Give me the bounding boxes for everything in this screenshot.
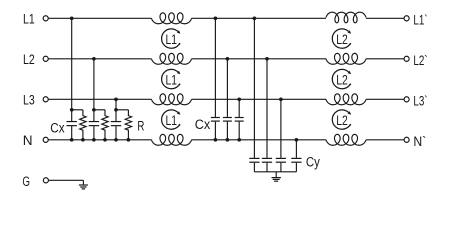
choke L1 core symbol 3 — [162, 110, 181, 129]
wire N middle segment — [192, 139, 327, 141]
wire N input segment — [48, 139, 151, 141]
svg-text:L1: L1 — [166, 72, 178, 88]
svg-text:N: N — [23, 133, 33, 149]
wire L1 middle segment — [192, 17, 327, 19]
svg-text:L2: L2 — [336, 32, 348, 48]
capacitor Cx mid 1 — [211, 18, 220, 140]
wire L2 output segment — [366, 58, 404, 60]
junction N-Cx6 — [237, 138, 241, 142]
node bar 2 — [94, 109, 105, 111]
svg-text:L2: L2 — [336, 72, 348, 88]
junction L1-Cx1 — [70, 16, 74, 20]
svg-text:Cy: Cy — [306, 155, 321, 171]
junction L2-Cx2 — [92, 57, 96, 61]
inductor L1 winding 2 — [152, 53, 192, 64]
terminal L2 — [43, 56, 48, 61]
wire L3 middle segment — [192, 98, 327, 100]
junction N-Cx4 — [214, 138, 218, 142]
junction L1-Cx4 — [214, 16, 218, 20]
wire L3 input segment — [48, 98, 151, 100]
svg-text:G: G — [22, 174, 30, 190]
wire from L3 to node 3 — [115, 99, 117, 110]
junction node 2 — [92, 108, 96, 112]
svg-text:L1: L1 — [166, 113, 178, 129]
wire L2 middle segment — [192, 58, 327, 60]
node bar 1 — [72, 109, 83, 111]
choke L2 core symbol 2 — [332, 69, 351, 88]
capacitor Cy2 — [262, 59, 272, 172]
capacitor Cx mid 2 — [223, 59, 232, 140]
svg-text:L3: L3 — [23, 93, 35, 109]
ground symbol at Cy — [272, 172, 281, 181]
choke L1 core symbol 1 — [162, 29, 181, 48]
svg-text:L2`: L2` — [413, 53, 427, 69]
terminal L3` — [404, 97, 409, 102]
junction N-R1 — [81, 138, 85, 142]
inductor L2 winding 3 — [326, 94, 366, 105]
capacitor Cx2 — [89, 110, 99, 140]
wire Cy ground rail — [254, 171, 296, 173]
capacitor Cx mid 3 — [235, 99, 244, 140]
junction N-Cx3 — [114, 138, 118, 142]
junction N-Cx1 — [70, 138, 74, 142]
wire L1 input segment — [48, 17, 151, 19]
terminal N — [43, 137, 48, 142]
svg-text:L3`: L3` — [413, 94, 427, 110]
junction N-R3 — [127, 138, 131, 142]
choke L2 core symbol 1 — [332, 29, 351, 48]
ground symbol at G — [79, 180, 88, 189]
junction L1-Cy1 — [253, 16, 257, 20]
inductor L1 winding 4 — [152, 134, 192, 145]
capacitor Cy3 — [276, 99, 286, 172]
terminal L1 — [43, 16, 48, 21]
svg-text:L1`: L1` — [413, 13, 427, 29]
svg-text:R: R — [137, 119, 144, 135]
node bar 3 — [116, 109, 128, 111]
junction L3-Cy3 — [279, 97, 283, 101]
svg-text:L2: L2 — [336, 113, 348, 129]
wire N output segment — [366, 139, 404, 141]
wire L3 output segment — [366, 98, 404, 100]
terminal L1` — [404, 16, 409, 21]
resistor R1 — [80, 110, 86, 140]
inductor L1 winding 1 — [152, 13, 192, 24]
junction N-Cx2 — [92, 138, 96, 142]
svg-text:L1: L1 — [23, 12, 35, 28]
capacitor Cx1 — [67, 110, 77, 140]
inductor L2 winding 2 — [326, 53, 366, 64]
terminal G — [43, 178, 48, 183]
wire L1 output segment — [366, 17, 404, 19]
capacitor Cx3 — [111, 110, 121, 140]
resistor R2 — [102, 110, 108, 140]
choke L2 core symbol 3 — [332, 110, 351, 129]
junction L3-Cx6 — [237, 97, 241, 101]
svg-text:N`: N` — [413, 134, 426, 150]
inductor L2 winding 1 — [326, 12, 366, 23]
wire from L2 to node 2 — [93, 59, 95, 110]
capacitor Cy1 — [249, 18, 259, 172]
junction L2-Cy2 — [265, 57, 269, 61]
junction N-Cx5 — [226, 138, 230, 142]
svg-text:Cx: Cx — [50, 120, 64, 136]
terminal L3 — [43, 97, 48, 102]
wire L2 input segment — [48, 58, 151, 60]
wire from L1 to node 1 — [71, 18, 73, 110]
junction node 1 — [70, 108, 74, 112]
terminal L2` — [404, 56, 409, 61]
wire G segment — [49, 179, 84, 181]
junction L2-Cx5 — [226, 57, 230, 61]
junction N-R2 — [103, 138, 107, 142]
svg-text:L1: L1 — [166, 32, 178, 48]
capacitor Cy4 — [291, 140, 301, 172]
junction L3-Cx3 — [114, 97, 118, 101]
inductor L2 winding 4 — [326, 134, 366, 145]
junction node 3 — [114, 108, 118, 112]
choke L1 core symbol 2 — [162, 69, 181, 88]
svg-text:L2: L2 — [23, 52, 35, 68]
inductor L1 winding 3 — [152, 94, 192, 105]
svg-text:Cx: Cx — [195, 117, 211, 133]
terminal N` — [404, 137, 409, 142]
resistor R3 — [125, 110, 131, 140]
junction N-Cy4 — [295, 138, 299, 142]
